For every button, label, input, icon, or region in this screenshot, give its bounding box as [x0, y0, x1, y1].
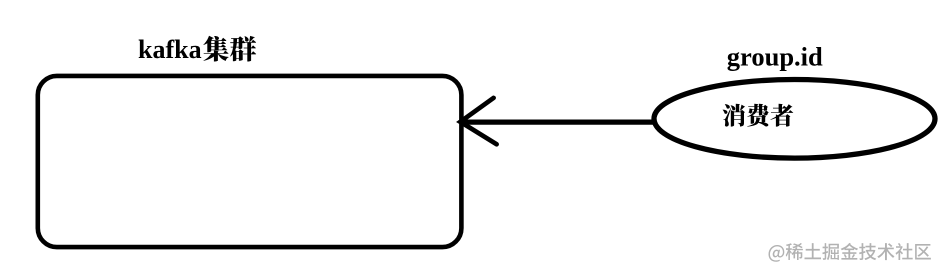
watermark @稀土掘金技术社区 [769, 243, 931, 262]
svg-text:kafka: kafka [138, 35, 202, 64]
wire arrow shaft from consumer ellipse to kafka box [461, 119, 653, 124]
label 消费者 (CJK glyph paths) [723, 104, 794, 127]
arrowhead open V at kafka box [460, 98, 496, 144]
svg-text:group.id: group.id [727, 41, 823, 71]
label 集群 (CJK glyph paths) [203, 36, 256, 62]
node consumer ellipse [654, 80, 935, 159]
node kafka cluster rounded box [38, 76, 462, 247]
